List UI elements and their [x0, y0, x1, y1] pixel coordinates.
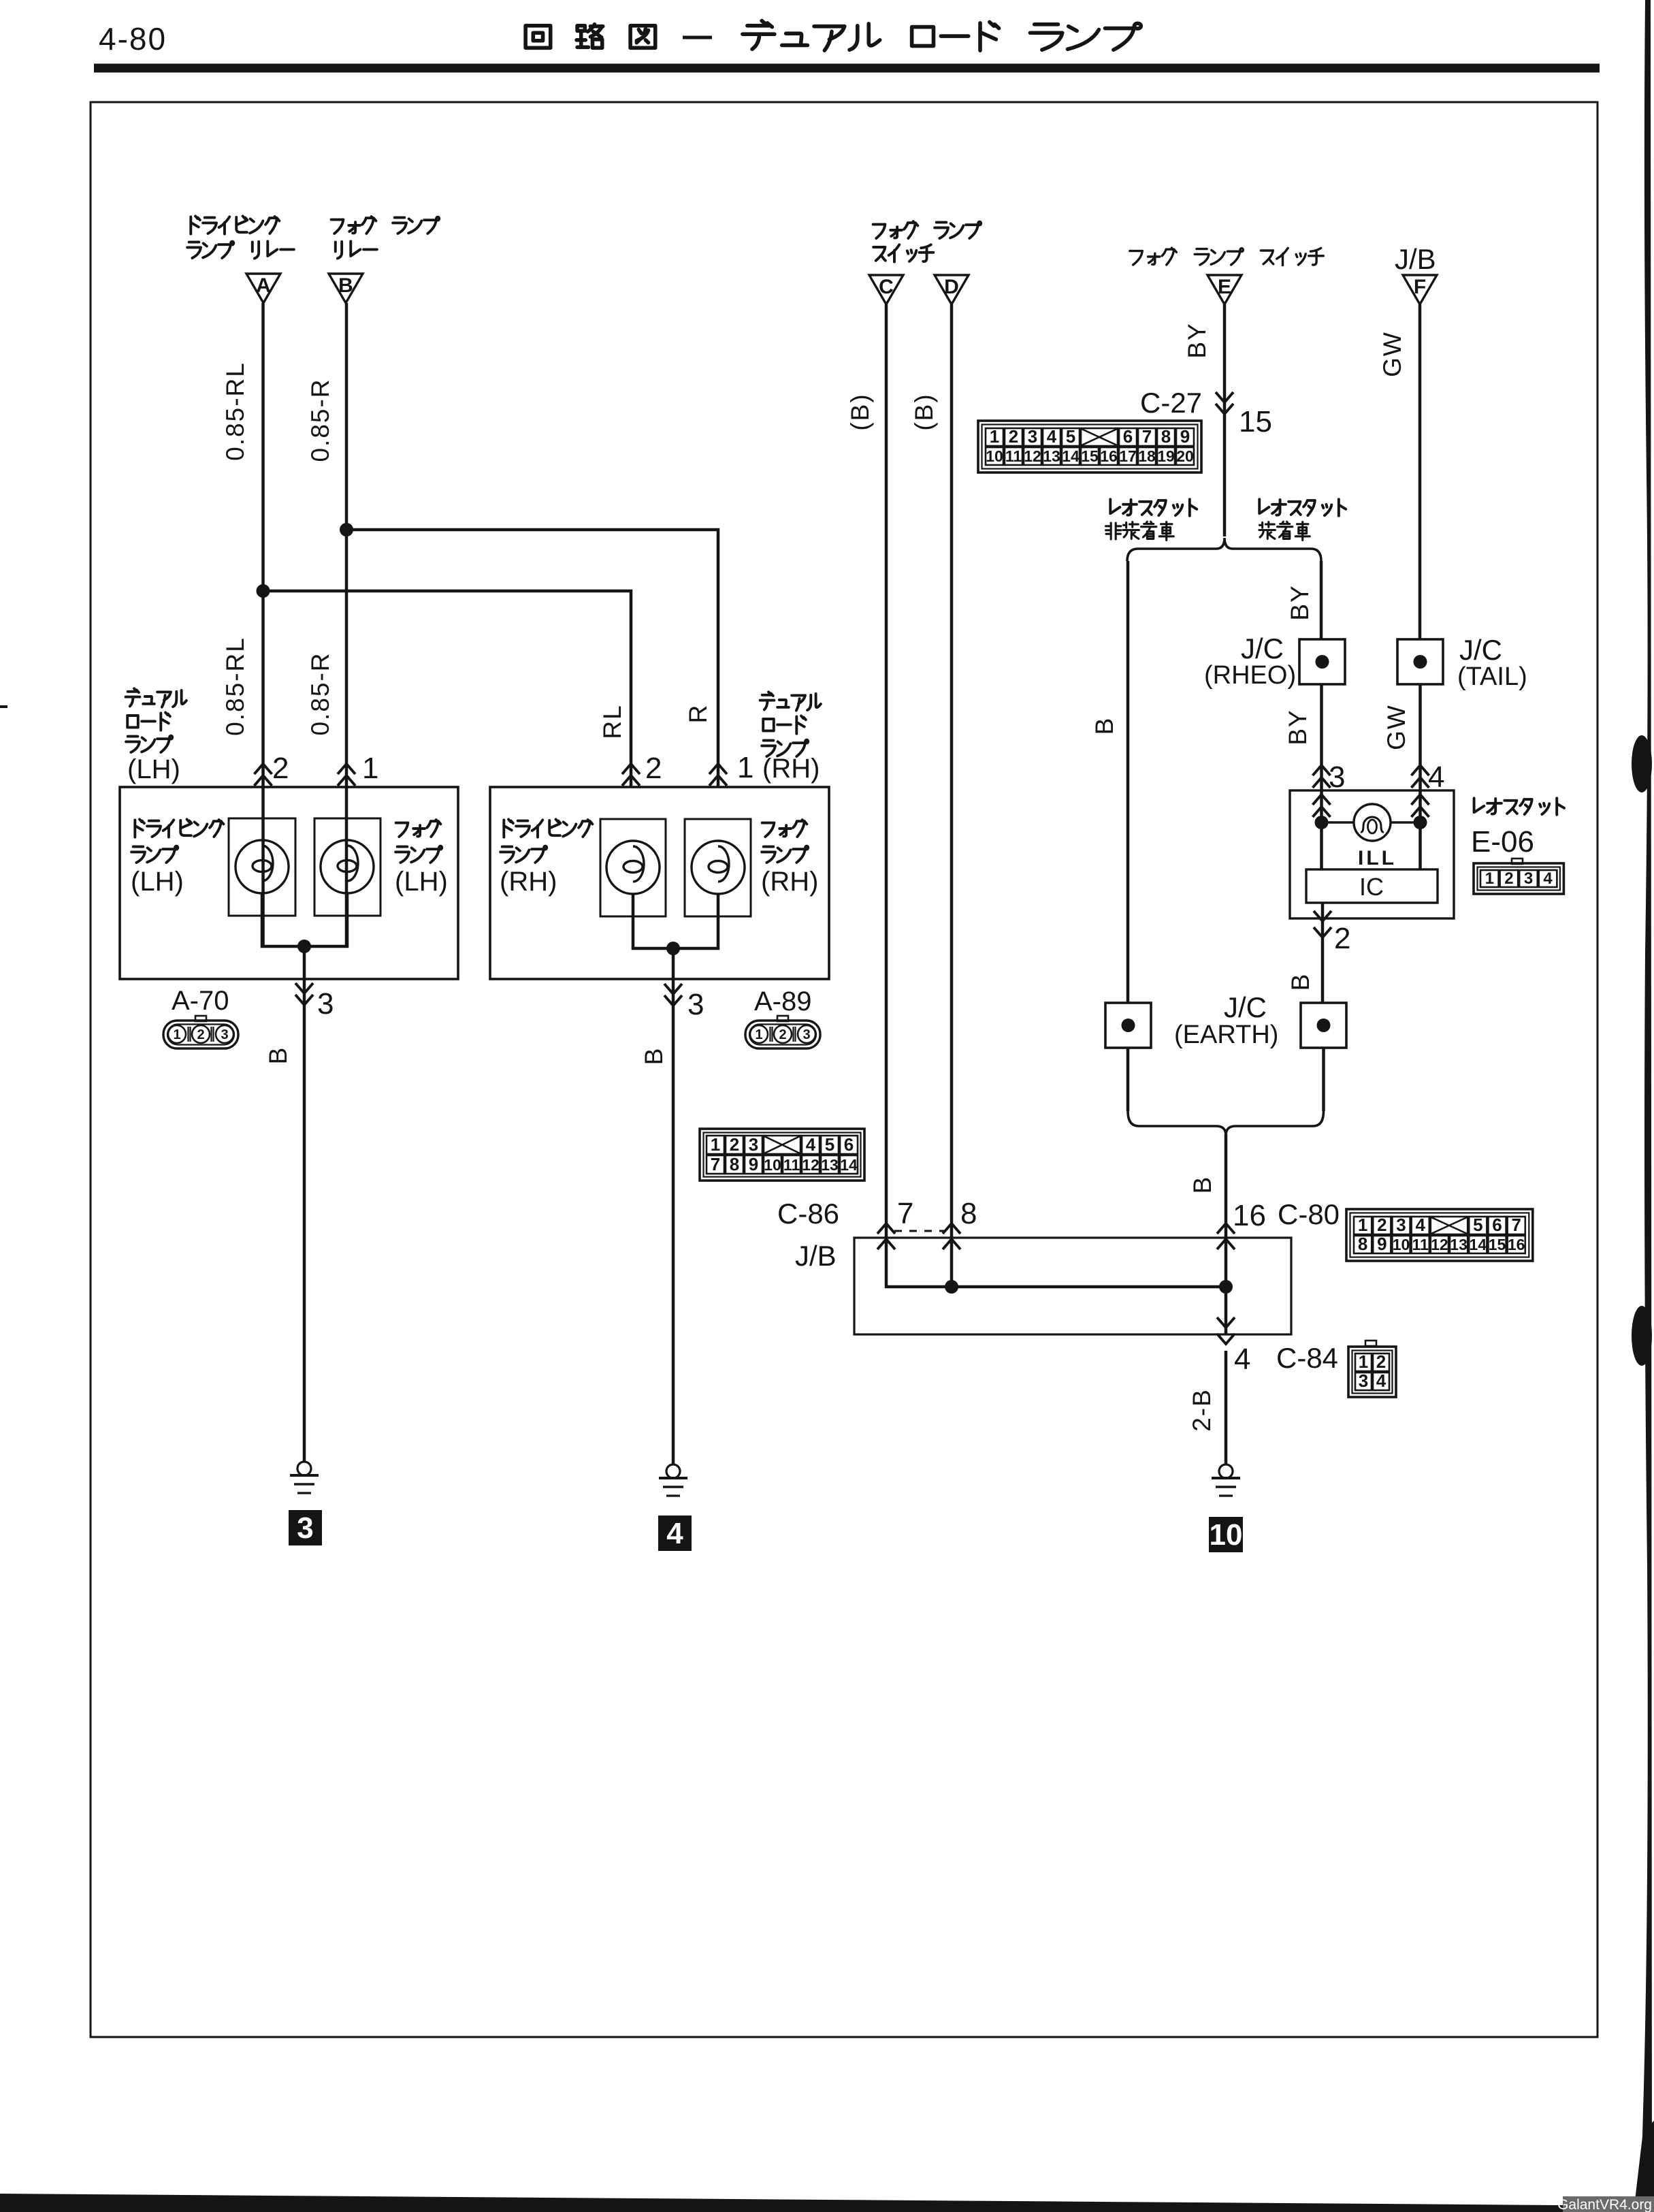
left margin tick [0, 705, 7, 708]
circuit ref 4 [658, 1516, 692, 1551]
rheostat E-06 box [1290, 790, 1454, 918]
svg-text:(B): (B) [846, 393, 874, 430]
connector F [1403, 275, 1437, 304]
svg-text:(RH): (RH) [500, 867, 557, 897]
junction J/C EARTH right [1301, 1003, 1346, 1048]
wire D vertical [950, 304, 954, 1238]
svg-text:B: B [640, 1047, 668, 1065]
header rule [94, 64, 1600, 73]
svg-text:3: 3 [297, 1511, 313, 1545]
wire LH driving lamp to junction [262, 893, 304, 946]
wire EARTH left down [1126, 1048, 1130, 1111]
svg-text:GW: GW [1382, 704, 1410, 750]
circuit ref 3 [289, 1510, 322, 1545]
connector A-70 [163, 1021, 238, 1048]
svg-text:10: 10 [986, 447, 1003, 465]
wire E vertical [1223, 304, 1227, 536]
junction RH lamps [666, 942, 680, 955]
svg-text:J/C: J/C [1241, 632, 1284, 664]
page edge band [1640, 0, 1652, 2212]
svg-text:C-84: C-84 [1276, 1342, 1338, 1374]
pin 4 arrow E-06 [1412, 765, 1429, 775]
wire right branch to J/C RHEO [1320, 561, 1323, 639]
svg-text:3: 3 [1524, 869, 1533, 888]
svg-text:5: 5 [1473, 1215, 1482, 1235]
wire F vertical GW [1418, 304, 1422, 639]
pin 2 arrow RH [622, 764, 640, 774]
svg-text:4: 4 [1415, 1215, 1425, 1235]
split brace [1127, 538, 1321, 561]
svg-text:14: 14 [1470, 1236, 1487, 1253]
pin 2 arrow E-06 [1314, 911, 1331, 921]
wire A branch to RH driving lamp [263, 591, 632, 787]
wire A vertical 0.85-RL [261, 303, 265, 946]
svg-text:E: E [1218, 276, 1231, 298]
svg-text:B: B [264, 1046, 292, 1065]
label dual road lamp LH [126, 688, 187, 707]
svg-text:12: 12 [1024, 447, 1041, 465]
svg-text:B: B [1286, 973, 1314, 991]
svg-text:7: 7 [1511, 1215, 1521, 1235]
pin 16 arrow [1217, 1223, 1235, 1234]
svg-text:0.85-R: 0.85-R [306, 378, 334, 462]
junction LH lamps [297, 940, 311, 953]
svg-text:RL: RL [598, 704, 626, 739]
wire 2-B to ground [1225, 1351, 1228, 1464]
svg-text:17: 17 [1119, 447, 1137, 465]
svg-text:4: 4 [806, 1134, 816, 1155]
svg-text:11: 11 [1005, 447, 1022, 465]
svg-text:0.85-RL: 0.85-RL [221, 362, 249, 461]
svg-text:2: 2 [645, 752, 662, 785]
page corner blob [1634, 2121, 1654, 2212]
connector E [1207, 275, 1242, 304]
label fog lamp switch E [1130, 248, 1324, 266]
wire merged B to J/B pin16 [1225, 1134, 1228, 1238]
svg-text:1: 1 [1359, 1351, 1368, 1372]
svg-text:7: 7 [897, 1197, 913, 1230]
svg-text:4: 4 [1543, 869, 1553, 888]
connector C-27 [978, 421, 1201, 472]
connector C-86 [700, 1129, 864, 1181]
dual road lamp RH box [490, 787, 829, 979]
wire EARTH right down [1322, 1048, 1325, 1111]
junction E-06 left [1315, 816, 1329, 829]
wire LH pin3 down [303, 946, 306, 1462]
svg-text:16: 16 [1233, 1199, 1266, 1232]
svg-text:11: 11 [783, 1156, 800, 1174]
svg-text:3: 3 [221, 1027, 228, 1042]
wire RH driving lamp to junction [633, 893, 673, 948]
svg-text:10: 10 [764, 1156, 781, 1174]
wire E-06 pin2 out [1321, 903, 1325, 1003]
svg-text:3: 3 [802, 1027, 810, 1042]
label rheostat E-06 [1474, 798, 1564, 814]
svg-text:13: 13 [821, 1156, 839, 1174]
title kanji 回路図 [525, 25, 655, 48]
svg-text:13: 13 [1043, 447, 1060, 465]
IC box [1306, 869, 1438, 903]
svg-text:J/C: J/C [1224, 991, 1267, 1023]
svg-text:J/C: J/C [1459, 634, 1502, 666]
ground RH [666, 1464, 680, 1478]
svg-text:3: 3 [1359, 1371, 1368, 1391]
svg-text:2-B: 2-B [1188, 1388, 1216, 1432]
driving lamp RH holder [600, 819, 666, 916]
page edge blob upper [1632, 735, 1652, 792]
svg-text:1: 1 [1358, 1215, 1367, 1235]
label fog lamp switch CD [873, 221, 982, 238]
svg-text:3: 3 [317, 987, 334, 1021]
svg-text:E-06: E-06 [1471, 825, 1534, 859]
pin 1 arrow RH [709, 764, 727, 774]
svg-text:8: 8 [730, 1154, 739, 1174]
title katakana デュアル ロード ランプ [743, 20, 880, 50]
svg-text:2: 2 [1376, 1351, 1386, 1372]
pin 8 arrow [943, 1223, 960, 1234]
svg-text:1: 1 [755, 1027, 762, 1042]
wire E-06 pin4 internal [1418, 790, 1422, 869]
pin 7 arrow [877, 1223, 895, 1234]
svg-text:(LH): (LH) [131, 867, 184, 897]
junction block J/B box [854, 1238, 1291, 1334]
wire RH pin3 down [672, 948, 675, 1464]
wire J/C RHEO to E-06 pin3 [1320, 684, 1323, 790]
pin 3 arrow E-06 [1313, 765, 1331, 775]
svg-text:C-27: C-27 [1140, 387, 1202, 419]
svg-text:3: 3 [1329, 760, 1345, 794]
svg-text:4: 4 [1234, 1343, 1250, 1376]
svg-text:(EARTH): (EARTH) [1174, 1021, 1278, 1049]
svg-text:GalantVR4.org: GalantVR4.org [1557, 2197, 1652, 2212]
svg-text:15: 15 [1239, 405, 1272, 438]
svg-text:C-80: C-80 [1278, 1198, 1340, 1230]
svg-text:6: 6 [1492, 1215, 1502, 1235]
watermark backdrop [1563, 2196, 1654, 2212]
svg-text:B: B [1188, 1176, 1216, 1194]
junction E-06 right [1414, 816, 1427, 829]
pin 2 arrow LH [255, 764, 272, 774]
label fog lamp LH [396, 820, 441, 837]
svg-text:16: 16 [1508, 1236, 1525, 1253]
svg-text:6: 6 [1123, 426, 1133, 447]
svg-text:10: 10 [1393, 1236, 1410, 1253]
svg-text:(RH): (RH) [762, 754, 820, 784]
svg-text:11: 11 [1412, 1236, 1429, 1253]
fog lamp LH holder [314, 818, 380, 916]
wire RH fog lamp to junction [673, 893, 718, 948]
svg-text:2: 2 [730, 1134, 739, 1155]
junction J/B pin8 [945, 1280, 958, 1294]
label fog lamp RH [762, 820, 807, 837]
junction J/C TAIL [1397, 639, 1443, 684]
svg-text:(RHEO): (RHEO) [1204, 661, 1296, 690]
svg-text:14: 14 [840, 1156, 858, 1174]
svg-text:B: B [338, 274, 353, 297]
circuit ref 10 [1209, 1517, 1243, 1552]
svg-text:(B): (B) [910, 393, 938, 430]
svg-text:2: 2 [1009, 426, 1018, 447]
svg-text:GW: GW [1378, 331, 1406, 377]
connector B [329, 274, 363, 303]
wire J/C TAIL to E-06 pin4 [1418, 684, 1422, 790]
svg-text:12: 12 [1431, 1236, 1448, 1253]
svg-text:8: 8 [1358, 1234, 1367, 1254]
svg-text:7: 7 [1142, 426, 1152, 447]
svg-text:5: 5 [1066, 426, 1075, 447]
svg-text:2: 2 [197, 1027, 204, 1042]
wire J/B pin4 internal [1225, 1287, 1228, 1334]
svg-text:(LH): (LH) [395, 867, 448, 897]
wire LH fog lamp to junction [304, 893, 347, 946]
connector A-89 [745, 1021, 820, 1048]
ground 2-B [1219, 1464, 1233, 1478]
connector C [869, 275, 903, 304]
svg-text:B: B [1090, 717, 1118, 735]
svg-text:9: 9 [749, 1154, 758, 1174]
svg-text:4-80: 4-80 [99, 21, 167, 57]
svg-text:8: 8 [960, 1197, 977, 1230]
wire B branch to RH fog lamp [346, 530, 718, 787]
wire J/B bus [952, 1285, 1226, 1289]
fog lamp RH holder [685, 819, 751, 916]
svg-text:4: 4 [1376, 1371, 1387, 1391]
wire left branch B [1126, 561, 1130, 1003]
fog lamp LH bulb [321, 840, 374, 893]
title dash [683, 36, 712, 39]
fog lamp RH bulb [692, 841, 745, 894]
label rheostat without [1110, 499, 1197, 515]
svg-text:2: 2 [779, 1027, 786, 1042]
svg-text:1: 1 [990, 426, 999, 447]
svg-text:1: 1 [711, 1134, 720, 1155]
connector E-06 pins [1512, 859, 1523, 864]
junction on wire A [257, 584, 270, 598]
svg-text:IC: IC [1359, 873, 1384, 901]
label driving lamp RH [504, 820, 592, 837]
svg-text:15: 15 [1081, 447, 1099, 465]
wire J/B pin16 internal [1225, 1238, 1228, 1287]
svg-text:18: 18 [1138, 447, 1156, 465]
label dual road lamp RH [760, 692, 821, 710]
wire E-06 pin3 internal [1320, 790, 1323, 869]
svg-text:13: 13 [1450, 1236, 1467, 1253]
wire to ILL bulb left [1322, 821, 1355, 823]
svg-text:4: 4 [1428, 760, 1444, 794]
svg-text:A: A [256, 274, 271, 297]
svg-text:F: F [1414, 276, 1426, 298]
label driving lamp relay [191, 217, 279, 234]
svg-text:9: 9 [1377, 1234, 1387, 1254]
junction J/C EARTH left [1105, 1003, 1151, 1048]
svg-text:4: 4 [666, 1517, 683, 1550]
svg-text:C: C [879, 276, 894, 298]
svg-text:9: 9 [1180, 426, 1190, 447]
svg-text:2: 2 [272, 752, 289, 785]
svg-text:12: 12 [802, 1156, 820, 1174]
driving lamp LH bulb [236, 840, 289, 893]
connector C-84 [1365, 1341, 1376, 1346]
label driving lamp LH [135, 820, 223, 837]
svg-text:R: R [684, 704, 712, 724]
connector D [935, 275, 969, 304]
svg-text:ILL: ILL [1358, 847, 1397, 869]
wire C vertical [885, 304, 888, 1238]
diagram frame [91, 102, 1598, 2037]
dual road lamp LH box [120, 787, 458, 979]
svg-text:3: 3 [1028, 426, 1037, 447]
svg-text:BY: BY [1183, 322, 1211, 358]
svg-text:(LH): (LH) [127, 754, 180, 784]
pin 3 arrow RH [664, 995, 682, 1006]
pin 4 arrow J/B [1217, 1317, 1235, 1328]
svg-text:0.85-RL: 0.85-RL [221, 637, 249, 736]
svg-text:1: 1 [1485, 869, 1494, 888]
svg-text:2: 2 [1504, 869, 1513, 888]
svg-text:5: 5 [825, 1134, 834, 1155]
label fog lamp relay [331, 217, 440, 234]
svg-text:4: 4 [1047, 426, 1057, 447]
page edge blob lower [1632, 1306, 1652, 1366]
svg-text:1: 1 [362, 752, 378, 785]
wire J/B pin8 internal [950, 1238, 954, 1287]
label rheostat with [1259, 499, 1346, 515]
svg-text:1: 1 [737, 751, 753, 784]
svg-text:19: 19 [1157, 447, 1175, 465]
ground LH [297, 1462, 311, 1475]
svg-text:A-89: A-89 [754, 987, 812, 1016]
pin 1 arrow LH [338, 764, 355, 774]
ILL bulb [1354, 804, 1391, 841]
svg-text:10: 10 [1210, 1518, 1243, 1552]
junction J/B pin16 [1219, 1280, 1233, 1294]
driving lamp RH bulb [606, 841, 660, 894]
bottom scan band [0, 2194, 1654, 2212]
svg-text:(TAIL): (TAIL) [1457, 662, 1527, 691]
junction J/C RHEO [1299, 639, 1345, 684]
svg-text:8: 8 [1161, 426, 1171, 447]
svg-text:20: 20 [1176, 447, 1194, 465]
merge brace [1128, 1111, 1324, 1136]
svg-text:J/B: J/B [1395, 243, 1436, 275]
dashed link pins 7-8 [894, 1230, 946, 1232]
svg-text:1: 1 [173, 1027, 180, 1042]
pin 15 arrow [1216, 404, 1233, 414]
wire B vertical 0.85-R [345, 303, 348, 946]
svg-text:14: 14 [1062, 447, 1080, 465]
driving lamp LH holder [229, 818, 295, 916]
wire J/B pin7 internal [886, 1238, 952, 1287]
svg-text:16: 16 [1100, 447, 1118, 465]
svg-text:0.85-R: 0.85-R [306, 652, 334, 735]
junction on wire B [340, 523, 353, 536]
svg-text:7: 7 [711, 1154, 720, 1174]
svg-text:D: D [944, 276, 959, 298]
svg-text:A-70: A-70 [172, 986, 229, 1016]
svg-text:2: 2 [1377, 1215, 1387, 1235]
svg-text:3: 3 [749, 1134, 758, 1155]
svg-text:J/B: J/B [795, 1240, 837, 1272]
svg-text:BY: BY [1284, 709, 1312, 745]
svg-text:BY: BY [1286, 584, 1314, 620]
svg-text:3: 3 [1396, 1215, 1406, 1235]
svg-text:(RH): (RH) [761, 867, 818, 897]
svg-text:15: 15 [1489, 1236, 1506, 1253]
wire to ILL bulb right [1391, 821, 1421, 823]
svg-text:2: 2 [1334, 922, 1350, 955]
connector C-80 [1346, 1209, 1533, 1261]
svg-text:C-86: C-86 [777, 1198, 839, 1230]
pin 3 arrow LH [295, 995, 313, 1005]
svg-text:6: 6 [844, 1134, 854, 1155]
connector A [246, 274, 280, 303]
svg-text:3: 3 [687, 988, 704, 1021]
